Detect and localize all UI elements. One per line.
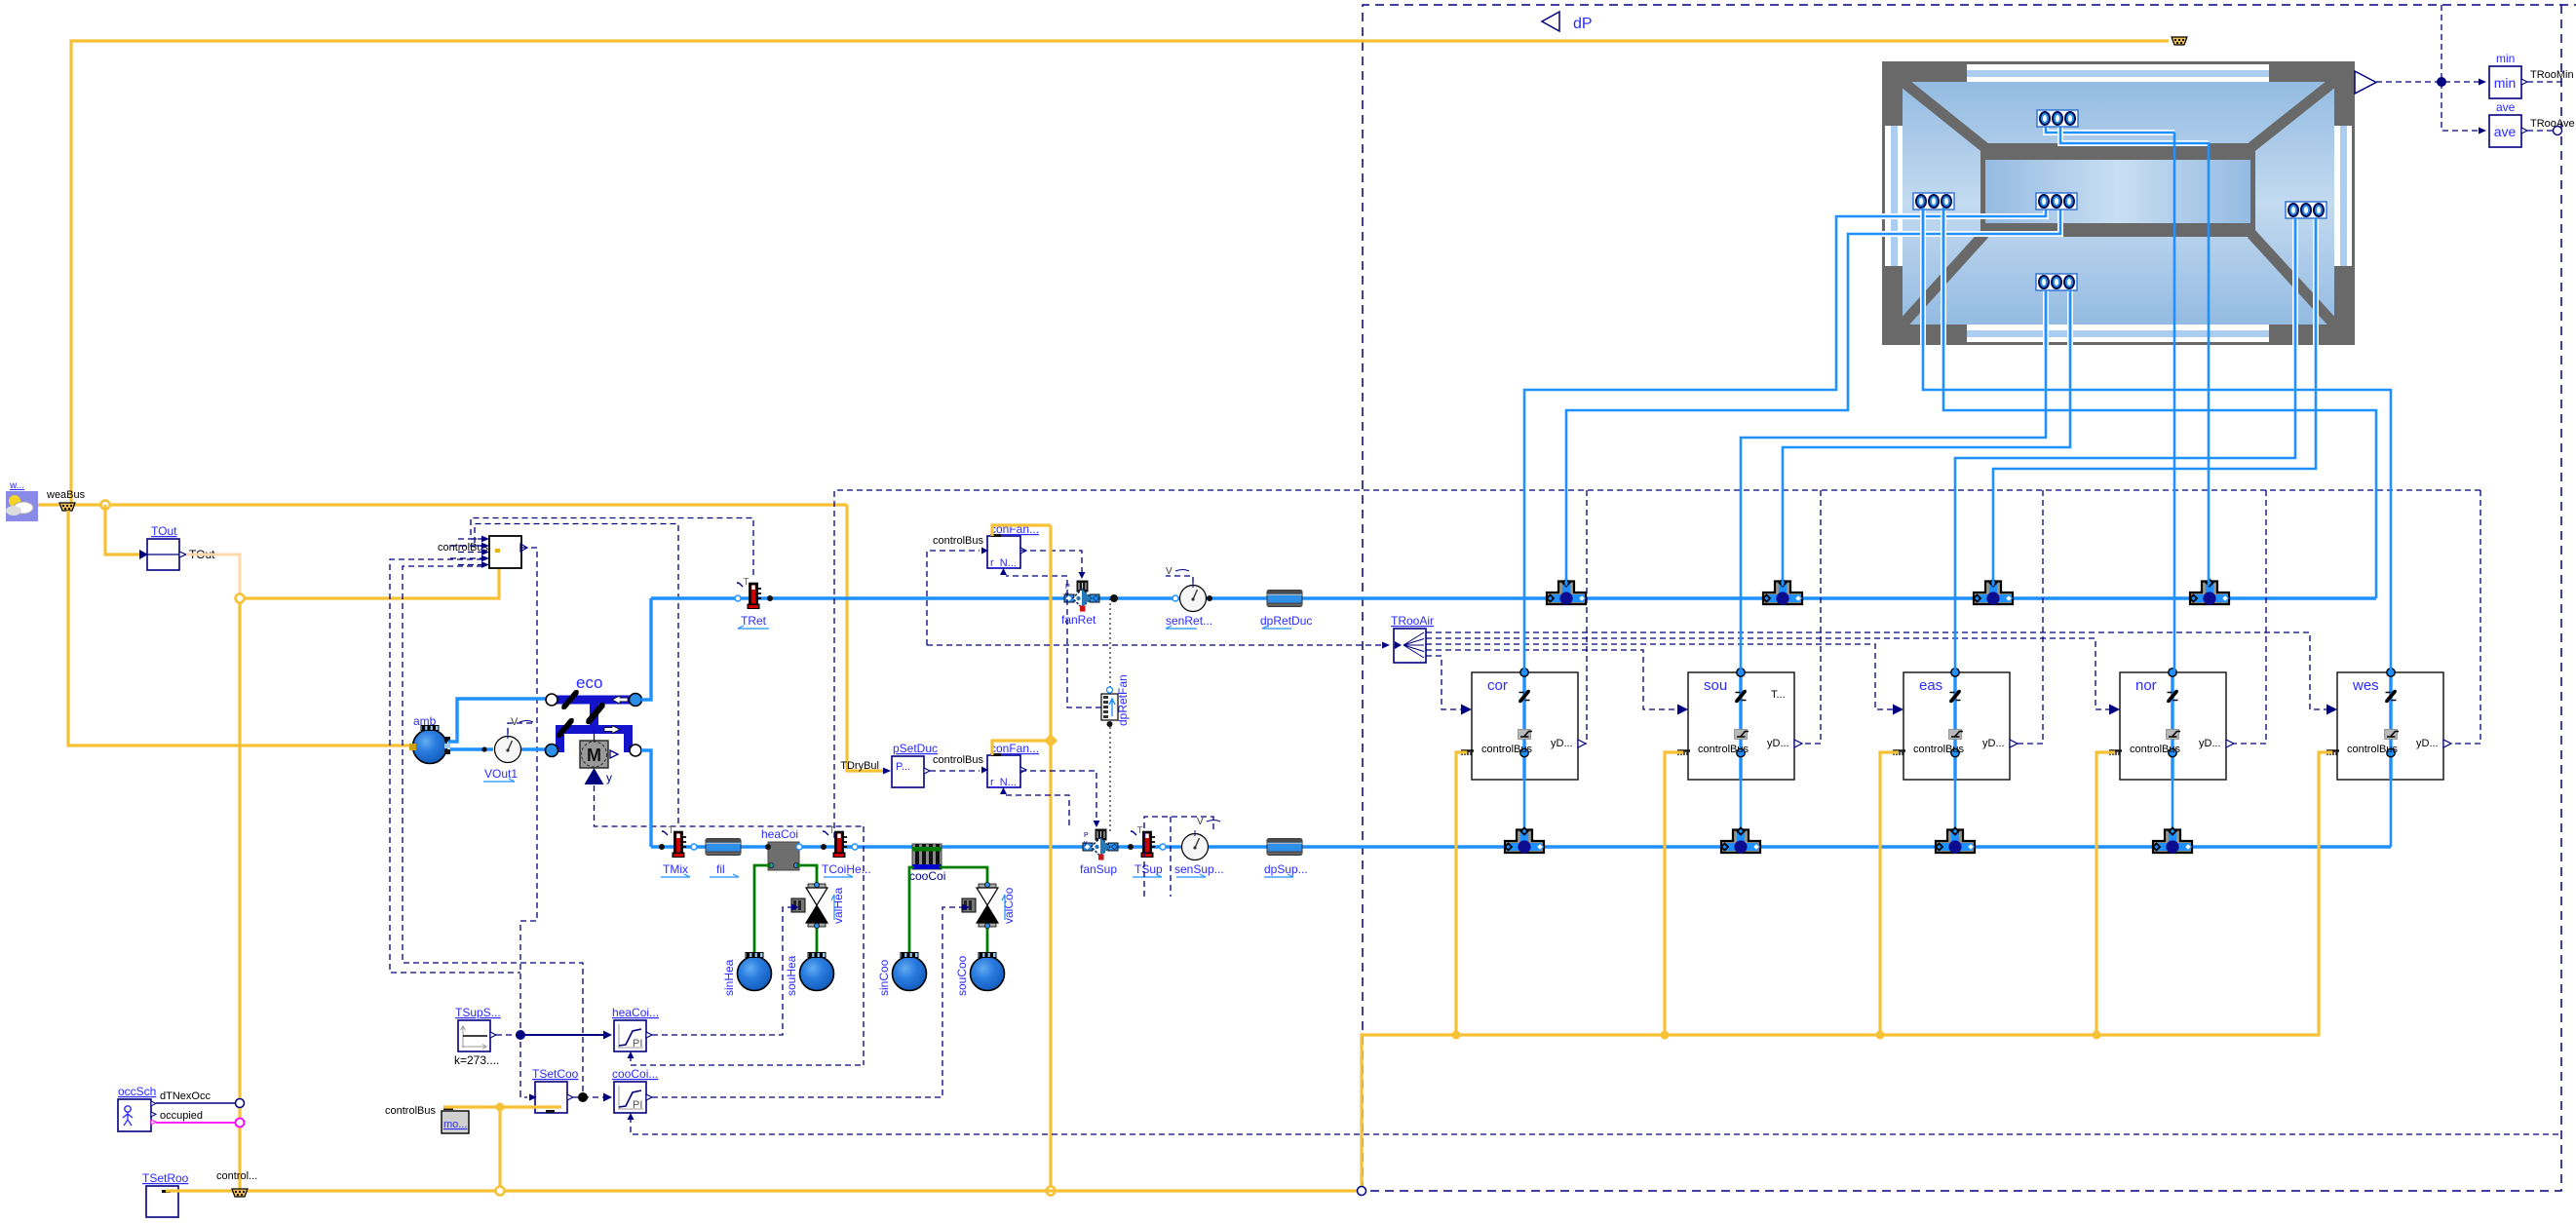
wire pSetDuc to conFanSup	[930, 770, 980, 772]
wire controlBus trunk x886	[863, 826, 865, 1065]
wire eco return riser	[641, 598, 651, 700]
wire weaBus TDryBul to pSetDuc	[847, 505, 883, 771]
node flo temperature output port	[2355, 71, 2376, 94]
wire wes room line a	[1920, 208, 1926, 345]
wire controlBus dP dashed loop top	[1363, 5, 2576, 1191]
component conFanRet	[933, 522, 1039, 575]
svg-text:cor: cor	[1487, 677, 1508, 694]
component sou VAV box	[1677, 669, 1802, 780]
wire conFanSup bus stub	[992, 741, 1047, 755]
svg-text:TRooAir: TRooAir	[1391, 614, 1434, 628]
wire yDam rail	[834, 490, 2480, 838]
connector controlBus (AHU block)	[438, 536, 521, 568]
wire eas room line a	[2292, 218, 2298, 345]
component eas supply splitter	[1936, 828, 1975, 854]
svg-text:ave: ave	[2496, 100, 2516, 114]
svg-text:r_N...: r_N...	[990, 777, 1017, 788]
component sou supply splitter	[1721, 828, 1760, 854]
svg-text:senSup...: senSup...	[1174, 862, 1224, 876]
node return junction dot	[1110, 594, 1118, 602]
component sou return splitter	[1763, 580, 1802, 605]
wire controlBus input arrows	[450, 536, 489, 568]
wire sou room line b	[2067, 290, 2073, 345]
wire TSetCoo output to cooCoiCon	[573, 1096, 605, 1098]
wire sou controlBus yellow	[1665, 752, 1683, 1035]
wire nor room line a	[2046, 127, 2174, 133]
wire yDam riser sou	[1802, 490, 1821, 744]
connector cor room ports	[2036, 193, 2077, 210]
wire yDam riser nor	[2234, 490, 2266, 744]
wire eas supply riser below box	[1954, 780, 1957, 835]
wire eas room return	[1993, 218, 2316, 586]
connector controlBus bottom DB9	[216, 1170, 257, 1197]
wire wes supply riser below box	[2390, 780, 2393, 847]
component fil (filter)	[706, 839, 741, 878]
wire weaBus horizontal	[38, 503, 847, 506]
svg-text:yD...: yD...	[1767, 738, 1789, 749]
wire heaCoiCon bottom input	[631, 1055, 864, 1065]
wire TOut junction to controlBus connector	[244, 569, 499, 598]
wire wes room line b	[1941, 208, 1946, 345]
wire nor supply riser below box	[2172, 780, 2174, 835]
wire conFanRet output to fanRet	[1020, 551, 1082, 575]
wire TRet output rail to controlBus	[471, 518, 753, 576]
svg-text:souCoo: souCoo	[955, 955, 969, 996]
component heaCoiCon PI	[612, 1006, 659, 1058]
svg-text:TSetRoo: TSetRoo	[142, 1171, 189, 1185]
svg-text:cooCoi...: cooCoi...	[612, 1067, 658, 1081]
connector wes room ports	[1913, 193, 1954, 210]
wire dpRetFan to conFanRet	[1006, 576, 1101, 707]
wire yDam riser eas	[2018, 490, 2043, 744]
wire TSetCoo input from trunk	[520, 1091, 527, 1097]
component dpRetFan	[1101, 674, 1130, 727]
svg-text:dTNexOcc: dTNexOcc	[160, 1090, 211, 1102]
wire weaBus down to amb	[68, 511, 409, 745]
wire sou room return	[1783, 290, 2070, 586]
wire weaBus to TOut	[105, 505, 139, 554]
wire yDam riser wes	[2451, 490, 2480, 744]
svg-text:T...: T...	[1771, 689, 1786, 701]
component pSetDuc	[840, 742, 938, 787]
svg-text:valHea: valHea	[831, 887, 845, 924]
wire cooCoiCon bottom input long dashed	[631, 1117, 2561, 1134]
svg-text:k=273....: k=273....	[454, 1053, 499, 1067]
wire wes room return	[1943, 208, 2376, 598]
svg-text:controlBus: controlBus	[1698, 744, 1749, 755]
wire TRooAir to wes	[1426, 632, 2326, 709]
wire TSupSet to heaCoiCon	[496, 1034, 520, 1036]
component fanSup	[1080, 829, 1118, 877]
connector weaBus	[46, 489, 86, 511]
svg-text:senRet...: senRet...	[1166, 614, 1212, 628]
svg-text:sou: sou	[1704, 677, 1727, 694]
svg-text:control...: control...	[216, 1170, 257, 1182]
sensor TSup	[1128, 825, 1166, 877]
connector eas room ports	[2286, 202, 2326, 218]
wire bottom yellow bus	[166, 1189, 1362, 1192]
svg-text:dpRetDuc: dpRetDuc	[1260, 614, 1312, 628]
svg-text:P...: P...	[896, 761, 910, 773]
wire controlBus output nub dashed	[520, 548, 537, 1091]
svg-text:TDryBul: TDryBul	[840, 760, 879, 772]
svg-text:V: V	[511, 716, 519, 728]
svg-text:occSch: occSch	[118, 1085, 156, 1098]
component occSch occupancy schedule	[118, 1085, 156, 1131]
wire cooCoi to sinCoo (green)	[909, 867, 914, 956]
svg-text:yD...: yD...	[2416, 738, 2439, 749]
wire flo output to min/ave	[2376, 81, 2484, 83]
wire nor room return	[2208, 142, 2211, 586]
wire cor room return	[1566, 234, 1882, 586]
svg-text:wes: wes	[2352, 677, 2379, 694]
sensor TMix	[659, 825, 697, 877]
wire supply duct main	[651, 845, 2391, 848]
wire controlBus trunk x413	[403, 566, 583, 1097]
wire nor controlBus yellow	[2096, 752, 2115, 1035]
wire TRooAve output	[2527, 130, 2561, 132]
svg-text:dpSup...: dpSup...	[1264, 862, 1308, 876]
svg-text:TRooAve: TRooAve	[2530, 118, 2575, 130]
svg-text:conFan...: conFan...	[990, 742, 1039, 755]
svg-text:controlBus: controlBus	[385, 1105, 436, 1117]
svg-text:TRooMin: TRooMin	[2530, 69, 2574, 81]
component sinHea	[722, 953, 772, 997]
component cooCoi	[909, 844, 945, 883]
svg-text:controlBus: controlBus	[2347, 744, 2398, 755]
svg-text:cooCoi: cooCoi	[909, 869, 945, 883]
wire controlBus trunk x400	[390, 559, 520, 973]
component TSetRoo	[142, 1171, 189, 1217]
svg-text:dpRetFan: dpRetFan	[1116, 674, 1130, 726]
svg-text:controlBus: controlBus	[933, 754, 983, 766]
component ave	[2489, 100, 2527, 147]
svg-text:V: V	[1197, 817, 1204, 827]
wire yellow trunk	[1049, 525, 1052, 1187]
svg-text:min: min	[2494, 75, 2517, 91]
svg-text:TSup: TSup	[1134, 862, 1163, 876]
svg-text:TOut: TOut	[151, 524, 177, 538]
wire yellow bus riser to VAV row	[1362, 755, 2319, 1191]
wire VOut1 dashed output	[508, 723, 535, 734]
node TOut junction circle	[236, 594, 245, 603]
wire sou room supply	[1741, 290, 2046, 672]
wire TOut output (peach)	[186, 554, 240, 594]
component weaDat weather data reader	[6, 480, 38, 521]
wire conFanRet input dashed	[927, 551, 980, 645]
wire cor room line b	[1882, 208, 2060, 234]
wire TOut junction down to occSch / bottom bus	[238, 602, 241, 1191]
wire yDam riser cor	[1586, 490, 1587, 744]
wire sou room line a	[2043, 290, 2049, 345]
svg-text:controlBus: controlBus	[1481, 744, 1532, 755]
wire amb to eco upper	[448, 699, 546, 742]
wire TRooMin output	[2527, 81, 2561, 83]
svg-text:yD...: yD...	[1982, 738, 2005, 749]
wire conFanSup bottom input dashed	[1006, 795, 1069, 828]
component mode selector	[385, 1105, 469, 1133]
svg-text:min: min	[2496, 52, 2515, 65]
component eco economizer	[546, 673, 642, 784]
component VOut1 (outdoor airflow sensor)	[483, 716, 533, 782]
component cooCoiCon PI	[612, 1067, 658, 1120]
node weaBus junction	[101, 501, 110, 510]
sensor senSupFlo	[1174, 817, 1224, 877]
wire occupied	[156, 1122, 235, 1124]
wire eas room supply	[1955, 218, 2295, 672]
wire VOut1 to eco lower port	[521, 747, 547, 750]
component dpRetDuc	[1260, 591, 1312, 630]
component TSetCoo	[529, 1067, 579, 1113]
wire TRooAir to eas	[1426, 644, 1893, 709]
component flo building floor plan	[1882, 61, 2355, 345]
svg-text:controlBus: controlBus	[2130, 744, 2180, 755]
svg-text:sinHea: sinHea	[722, 959, 736, 996]
node bottom bus circle	[496, 1187, 505, 1196]
component eas VAV box	[1893, 669, 2018, 780]
wire eco supply riser	[641, 750, 651, 847]
wire cor supply riser below box	[1523, 780, 1526, 835]
node yellow junction diamond	[1044, 734, 1057, 747]
wire amb to VOut1 to eco lower	[450, 747, 493, 750]
component nor return splitter	[2190, 580, 2229, 605]
wire TSup dashed box	[1144, 817, 1213, 897]
svg-text:r_N...: r_N...	[990, 557, 1017, 569]
wire wes controlBus yellow	[2319, 752, 2332, 755]
wire heaCoi to valHea to souHea (green)	[796, 865, 817, 869]
wire mode controlBus yellow	[443, 1105, 561, 1108]
component cor supply splitter	[1505, 828, 1544, 854]
svg-text:amb: amb	[413, 714, 437, 728]
component valHea	[791, 882, 845, 928]
component nor supply splitter	[2153, 828, 2192, 854]
sensor TRet	[735, 577, 773, 629]
svg-text:souHea: souHea	[785, 955, 798, 996]
svg-text:fil: fil	[716, 862, 725, 876]
wire wes room supply	[1923, 208, 2391, 672]
component souCoo	[955, 953, 1005, 997]
svg-text:controlBus: controlBus	[933, 535, 983, 547]
svg-text:fanSup: fanSup	[1080, 862, 1117, 876]
svg-text:M: M	[587, 745, 601, 765]
wire TRooAir to cor	[1426, 656, 1461, 709]
component cor return splitter	[1547, 580, 1586, 605]
component fanRet	[1061, 581, 1099, 628]
component cor VAV box	[1461, 669, 1586, 780]
wire cor room line a	[1882, 208, 2046, 216]
svg-text:weaBus: weaBus	[46, 489, 86, 501]
svg-text:occupied: occupied	[160, 1110, 203, 1122]
svg-text:dP: dP	[1573, 16, 1593, 32]
component TRooAir multiplex	[1391, 614, 1434, 663]
wire nor room supply	[2173, 133, 2176, 672]
component sinCoo	[877, 953, 927, 997]
connector nor room ports	[2037, 110, 2078, 127]
wire eas room line b	[2313, 218, 2319, 345]
wire TRooAir to nor	[1426, 638, 2109, 709]
svg-text:eco: eco	[576, 673, 602, 692]
wire TRooAir to sou	[1426, 650, 1677, 709]
component nor VAV box	[2109, 669, 2234, 780]
svg-text:yD...: yD...	[2199, 738, 2221, 749]
connector sou room ports	[2036, 274, 2077, 290]
node dP output triangle	[1542, 12, 1559, 31]
component min	[2489, 52, 2527, 98]
sensor TCoiHeaOut	[821, 825, 871, 877]
wire sou supply riser below box	[1740, 780, 1743, 835]
svg-text:TRet: TRet	[741, 614, 767, 628]
component valCoo	[962, 882, 1016, 928]
svg-text:pSetDuc: pSetDuc	[893, 742, 938, 755]
wire heaCoiCon output to valHea	[652, 907, 793, 1035]
connector weaBus building DB9	[2172, 37, 2187, 45]
svg-text:heaCoi...: heaCoi...	[612, 1006, 659, 1019]
wire senRetFlo dashed	[1166, 576, 1193, 583]
sensor senRetFlo	[1166, 566, 1212, 629]
svg-text:heaCoi: heaCoi	[761, 827, 798, 841]
component souHea	[785, 953, 834, 997]
wire conFanRet bus stub	[992, 525, 1051, 536]
wire cor controlBus yellow	[1456, 752, 1467, 1035]
wire nor room line b	[2060, 127, 2209, 143]
wire TMix output rail to controlBus	[475, 524, 678, 824]
svg-text:nor: nor	[2135, 677, 2157, 694]
wire eco y dashed	[595, 785, 865, 826]
wire eas controlBus yellow	[1880, 752, 1899, 1035]
wire cooCoiCon output to valCoo	[652, 907, 964, 1097]
wire cor room supply	[1524, 216, 1882, 672]
svg-text:w...: w...	[9, 480, 24, 491]
wire weaBus to building (top)	[71, 41, 2169, 505]
svg-text:ave: ave	[2494, 124, 2517, 139]
svg-text:y: y	[606, 771, 612, 784]
svg-text:controlBus: controlBus	[1913, 744, 1964, 755]
svg-text:eas: eas	[1919, 677, 1942, 694]
wire TRooAir input dashed	[927, 644, 1388, 646]
component heaCoi	[761, 827, 802, 870]
wire conFanSup output to fanSup	[1020, 771, 1096, 822]
component eas return splitter	[1974, 580, 2013, 605]
wire heaCoi to sinHea (green)	[754, 865, 771, 956]
component amb (outside air boundary sphere)	[409, 714, 450, 764]
svg-text:sinCoo: sinCoo	[877, 959, 891, 996]
svg-text:mo...: mo...	[443, 1119, 467, 1130]
wire return duct main	[651, 596, 2376, 599]
wire cooCoi to valCoo to souCoo (green)	[940, 867, 987, 885]
component conFanSup	[933, 742, 1039, 794]
svg-text:TSetCoo: TSetCoo	[532, 1067, 579, 1081]
svg-text:valCoo: valCoo	[1002, 887, 1016, 924]
wire dTNexOcc	[156, 1102, 235, 1104]
svg-text:yD...: yD...	[1551, 738, 1573, 749]
wire controlBus dashed right side	[1366, 5, 2561, 1191]
svg-text:TSupS...: TSupS...	[455, 1006, 501, 1019]
component TSupSet	[454, 1006, 501, 1067]
component wes VAV box	[2326, 669, 2451, 780]
wire fan pressure dotted	[1109, 598, 1111, 687]
svg-text:VOut1: VOut1	[484, 767, 518, 781]
component dpSupDuc	[1264, 839, 1308, 878]
component TOut (weather bus to real)	[139, 524, 215, 570]
